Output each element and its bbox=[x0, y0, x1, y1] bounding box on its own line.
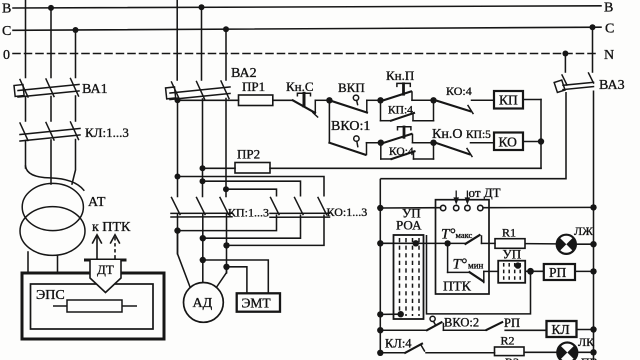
node: jumper B tap (phase2) bbox=[200, 178, 206, 184]
svg-text:С: С bbox=[605, 22, 614, 37]
svg-text:КО:4: КО:4 bbox=[389, 146, 414, 158]
arrows from DT bbox=[453, 191, 470, 205]
wire BA3 left pole down and over to left rail bbox=[380, 92, 566, 179]
arrows to PTK bbox=[92, 235, 120, 259]
resistor R1 bbox=[495, 239, 525, 249]
circuit breaker BA2 bbox=[166, 81, 230, 100]
wire KO col2 cross row bbox=[203, 215, 301, 239]
autotransformer AT bbox=[20, 183, 85, 255]
svg-text:к ПТК: к ПТК bbox=[92, 220, 131, 235]
contact RP (NO) bbox=[486, 322, 502, 330]
thermostat T max contact bbox=[448, 235, 495, 244]
node: parallel right row2 bbox=[430, 140, 436, 146]
EPS outer box bbox=[22, 273, 164, 339]
bus C (phase C) bbox=[13, 27, 601, 30]
svg-text:Т°: Т° bbox=[453, 257, 467, 273]
contact KO:4 (NC interlock row1) bbox=[437, 100, 494, 113]
resistor R2 bbox=[495, 347, 525, 356]
contactor bank KO:1...3 bbox=[270, 198, 330, 218]
node: right rail / KL row bbox=[590, 326, 596, 332]
thermostat T min contact bbox=[448, 243, 499, 282]
node: tap C feeder3 bbox=[590, 24, 596, 30]
contact KP:5 (NC interlock row2) bbox=[437, 143, 494, 157]
PTK block box bbox=[436, 200, 490, 294]
EPS inner box bbox=[31, 284, 154, 329]
brake EMT box bbox=[237, 293, 280, 311]
contactor bank KP:1...3 bbox=[171, 198, 232, 218]
node: tap B feeder1 bbox=[48, 5, 54, 11]
wire lamp to right rail bbox=[576, 243, 594, 245]
svg-text:Кн.О: Кн.О bbox=[432, 127, 462, 142]
node: T max pivot bbox=[444, 240, 450, 246]
svg-text:мин: мин bbox=[468, 261, 484, 271]
sensor DT pentagon bbox=[90, 260, 121, 293]
wire AT secondary right lead bbox=[57, 255, 59, 273]
node: EMT row A tap bbox=[200, 257, 206, 263]
svg-text:ПР1: ПР1 bbox=[242, 79, 265, 94]
svg-text:С: С bbox=[2, 24, 11, 39]
motor AD bbox=[184, 283, 224, 323]
node: PR2 tap on phase2 bbox=[200, 165, 206, 171]
bus B (phase B) bbox=[13, 6, 601, 8]
svg-text:Кн.С: Кн.С bbox=[286, 79, 314, 94]
wire RP junction loop to ROA box bbox=[427, 235, 531, 314]
wire right rail (BA3 right pole) bbox=[593, 91, 595, 360]
wire KP bank outputs down bbox=[178, 215, 227, 283]
contactor coil KL box bbox=[547, 321, 577, 337]
node: rail bottom corner bbox=[377, 350, 383, 356]
svg-text:В: В bbox=[604, 1, 613, 16]
contactor contacts KL:1...3 bbox=[20, 122, 80, 141]
svg-text:R2: R2 bbox=[501, 334, 515, 348]
contact KL:4 bottom row bbox=[380, 344, 494, 353]
svg-text:ЛК: ЛК bbox=[578, 335, 595, 349]
limit switch VKO:1 contact bbox=[329, 136, 380, 155]
limit switch VKP contact bbox=[329, 95, 380, 112]
svg-text:от ДТ: от ДТ bbox=[469, 185, 501, 200]
wire control row 1 bbox=[178, 99, 293, 101]
terminal circles from DT bbox=[440, 205, 483, 210]
svg-text:КЛ:4: КЛ:4 bbox=[385, 337, 412, 351]
bus 0/N (neutral, dashed) bbox=[13, 53, 599, 55]
wire BA1 to KL contacts bbox=[25, 97, 27, 121]
wire EMT feed B bbox=[227, 267, 247, 294]
circuit breaker BA1 bbox=[14, 79, 79, 98]
relay RP box bbox=[544, 264, 575, 280]
wire KO col1 cross row bbox=[178, 215, 277, 231]
svg-text:ЭПС: ЭПС bbox=[36, 288, 65, 303]
svg-text:КЛ:1...3: КЛ:1...3 bbox=[85, 125, 129, 140]
svg-text:КП:1...3: КП:1...3 bbox=[228, 206, 269, 220]
svg-text:РП: РП bbox=[504, 316, 520, 330]
limit switch VKO:2 contact bbox=[380, 316, 486, 330]
svg-text:В: В bbox=[2, 2, 11, 17]
wire row1 junction down to row2 bbox=[328, 100, 330, 142]
wire AT secondary left lead bbox=[27, 252, 29, 273]
wire KP coil to return rail bbox=[523, 100, 541, 169]
svg-text:ПР2: ПР2 bbox=[237, 147, 260, 162]
svg-text:R1: R1 bbox=[502, 226, 516, 240]
wire LZh row (left rail to T_max) bbox=[380, 242, 447, 244]
svg-text:КП: КП bbox=[499, 93, 518, 108]
svg-text:N: N bbox=[604, 48, 614, 63]
node: tap B feeder2 bbox=[199, 4, 205, 10]
feeder 1 phase B drop bbox=[50, 8, 52, 78]
svg-text:АД: АД bbox=[193, 296, 213, 311]
svg-text:КП:5: КП:5 bbox=[466, 129, 491, 141]
wire jumper C to KO column 1 bbox=[226, 189, 277, 196]
pushbutton Kn.S (stop, NC) bbox=[293, 93, 330, 117]
node: cross row2 on phase col2 bbox=[200, 235, 206, 241]
node: UP internal bbox=[515, 262, 521, 268]
relay coil KO bbox=[494, 133, 523, 151]
node: parallel right row1 bbox=[430, 97, 436, 103]
wire phase A sweep into AT bbox=[26, 166, 84, 190]
sensor DT bar bbox=[84, 259, 127, 262]
node: left rail / ot DT row bbox=[377, 205, 383, 211]
pushbutton Kn.P (start, NO) bbox=[384, 83, 434, 100]
contact KP:4 (parallel branch) bbox=[381, 100, 434, 120]
feeder 2 phase B drop bbox=[201, 7, 203, 80]
node: right rail / LK row bbox=[590, 349, 596, 355]
wire motor lead right bbox=[216, 267, 226, 288]
svg-text:ПВ: ПВ bbox=[581, 355, 598, 360]
node: KO joins return rail bbox=[538, 138, 544, 144]
resistor in EPS bbox=[53, 300, 137, 312]
node: left rail / LZh row bbox=[377, 240, 383, 246]
node: jumper A tap (phase1) bbox=[175, 174, 181, 180]
svg-text:ПТК: ПТК bbox=[443, 280, 472, 295]
svg-text:КЛ: КЛ bbox=[552, 322, 570, 337]
svg-text:КП:4: КП:4 bbox=[388, 105, 413, 117]
wire UP to RP junction bbox=[525, 270, 544, 272]
node: right rail / RP row bbox=[590, 268, 596, 274]
node: tap N feeder3 bbox=[562, 51, 568, 57]
svg-text:ЭМТ: ЭМТ bbox=[242, 296, 272, 311]
feeder 1 phase C drop bbox=[75, 30, 77, 78]
svg-text:РОА: РОА bbox=[396, 218, 422, 233]
circuit breaker BA3 bbox=[554, 73, 593, 92]
pushbutton Kn.O (NO) bbox=[384, 127, 434, 143]
svg-text:РП: РП bbox=[549, 265, 567, 280]
wire lamp LK to right rail bbox=[577, 351, 593, 353]
feeder 1 phase A drop (from top edge) bbox=[25, 0, 27, 78]
wire motor lead left bbox=[178, 231, 191, 288]
node: parallel left row2 bbox=[378, 140, 384, 146]
wire jumper B to KO column 2 bbox=[203, 181, 301, 196]
svg-text:КО:1...3: КО:1...3 bbox=[327, 205, 368, 219]
wire KO coil to return rail bbox=[523, 141, 541, 143]
fuse PR2 bbox=[235, 163, 270, 174]
wire KO col3 cross row bbox=[227, 215, 325, 246]
wire KL to transformer AT bbox=[25, 141, 27, 169]
wire PR2 return line bbox=[203, 167, 542, 169]
wire EMT feed A bbox=[203, 260, 268, 293]
node: tap C feeder1 bbox=[73, 27, 79, 33]
wire N drop to BA3 bbox=[564, 54, 566, 73]
feeder 2 phase A drop bbox=[176, 0, 178, 80]
svg-text:макс: макс bbox=[456, 230, 473, 240]
node: UP ROA bottom connection bbox=[398, 311, 404, 317]
wire ot DT row bbox=[380, 206, 593, 209]
positioner UP ROA box bbox=[394, 235, 424, 319]
node: right rail / ot DT row bbox=[590, 204, 596, 210]
node: cross row3 on phase col3 bbox=[223, 242, 229, 248]
svg-text:КО: КО bbox=[499, 135, 518, 150]
node: UP ROA top connection bbox=[413, 240, 419, 246]
wire R2 to lamp LK bbox=[524, 351, 557, 353]
node: UP/RP junction bbox=[527, 268, 534, 275]
wire phase columns below BA2 bbox=[178, 99, 227, 197]
positioner UP box bbox=[498, 261, 525, 283]
node: EMT row B tap bbox=[223, 264, 229, 270]
svg-text:0: 0 bbox=[3, 48, 10, 63]
svg-text:КО:4: КО:4 bbox=[446, 84, 472, 98]
node: BA2 pole1 output / control row1 takeoff bbox=[175, 97, 181, 103]
node: left rail / ROA bottom row bbox=[377, 311, 383, 317]
svg-text:ВА1: ВА1 bbox=[82, 82, 108, 97]
fuse PR1 bbox=[239, 95, 273, 106]
svg-text:ВКО:1: ВКО:1 bbox=[331, 119, 370, 134]
svg-text:ВКО:2: ВКО:2 bbox=[444, 316, 479, 330]
svg-text:ДТ: ДТ bbox=[97, 262, 114, 277]
svg-text:АТ: АТ bbox=[88, 195, 106, 210]
node: row1/row2 branch junction bbox=[326, 97, 332, 103]
wire left rail bbox=[379, 179, 381, 353]
wire KL to right rail bbox=[577, 329, 594, 331]
svg-text:ЛЖ: ЛЖ bbox=[574, 224, 593, 238]
node: parallel left row1 bbox=[377, 97, 383, 103]
node: cross row1 on phase col1 bbox=[174, 227, 180, 233]
svg-text:Кн.П: Кн.П bbox=[386, 68, 414, 83]
node: jumper C tap (phase3) bbox=[223, 186, 229, 192]
wire R1 to lamp bbox=[525, 243, 556, 245]
signal lamp LK bbox=[557, 343, 577, 360]
svg-text:ВА3: ВА3 bbox=[599, 78, 625, 93]
svg-text:Т°: Т° bbox=[441, 227, 455, 243]
contact KO:4 (parallel branch row2) bbox=[381, 143, 434, 159]
wire ROA bottom row bbox=[380, 313, 400, 315]
feeder 2 phase C drop bbox=[225, 29, 227, 80]
node: right rail / LZh row bbox=[590, 241, 596, 247]
wire RP to right rail bbox=[575, 270, 594, 272]
node: left rail / VKO:2 row bbox=[377, 327, 383, 333]
svg-text:УП: УП bbox=[503, 247, 522, 262]
node: tap C feeder2 bbox=[223, 26, 229, 32]
svg-text:ВКП: ВКП bbox=[338, 80, 365, 95]
relay coil KP bbox=[494, 91, 523, 109]
signal lamp LZh bbox=[557, 235, 576, 254]
wire C drop to BA3 bbox=[592, 27, 594, 72]
svg-text:R3: R3 bbox=[505, 355, 519, 360]
wire jumper A to KO column 3 bbox=[178, 177, 325, 197]
